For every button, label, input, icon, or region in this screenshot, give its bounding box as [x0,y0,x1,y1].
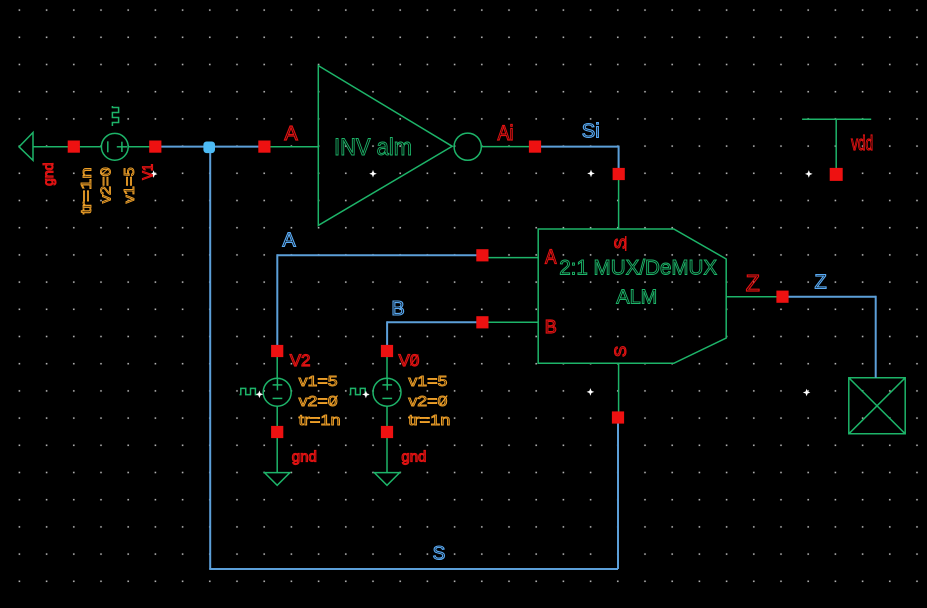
svg-text:2:1 MUX/DeMUX: 2:1 MUX/DeMUX [559,257,717,280]
svg-text:v1=5: v1=5 [408,373,447,390]
svg-text:gnd: gnd [401,449,426,466]
svg-text:tr=1n: tr=1n [299,412,341,429]
svg-text:B: B [545,317,557,337]
svg-text:tr=1n: tr=1n [78,167,95,214]
svg-text:INV alm: INV alm [334,134,412,161]
svg-text:ALM: ALM [616,286,657,308]
svg-text:B: B [391,298,404,320]
svg-text:v2=0: v2=0 [97,167,114,203]
svg-text:S: S [433,544,446,565]
svg-text:gnd: gnd [40,163,56,186]
svg-text:S: S [611,238,630,249]
svg-text:Z: Z [746,270,760,296]
svg-text:v2=0: v2=0 [299,393,338,410]
svg-text:A: A [284,123,298,145]
svg-text:Ai: Ai [498,122,514,145]
svg-text:vdd: vdd [851,133,873,155]
svg-text:v2=0: v2=0 [408,393,447,410]
svg-text:tr=1n: tr=1n [408,412,450,429]
svg-text:A: A [545,247,557,269]
svg-text:V0: V0 [399,351,420,370]
svg-text:v1=5: v1=5 [299,373,338,390]
svg-text:v1=5: v1=5 [121,167,138,203]
svg-text:Si: Si [582,121,600,143]
svg-text:S: S [611,346,630,357]
svg-text:V2: V2 [290,351,311,370]
svg-text:gnd: gnd [292,449,317,466]
svg-text:A: A [282,230,296,252]
svg-text:Z: Z [814,272,826,294]
svg-text:V1: V1 [139,164,156,180]
